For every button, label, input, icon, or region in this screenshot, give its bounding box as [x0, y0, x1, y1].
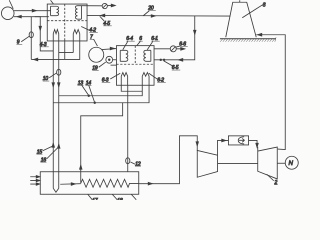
leader 10 — [49, 73, 56, 78]
turbine LP trapezoid — [258, 147, 278, 179]
leader 3 — [242, 4, 264, 18]
reheater box — [228, 136, 248, 145]
arrow into unit 6 — [110, 47, 114, 50]
wire fan bottom return — [14, 16, 49, 18]
leader 7 — [94, 39, 98, 46]
leader 6-6 — [175, 46, 180, 47]
drop leg 127.5 to valve 12 — [127, 85, 129, 172]
boiler U tube — [53, 188, 59, 192]
wire unit6 outlet to pump 6-6 — [154, 48, 170, 50]
leader 19 — [99, 62, 106, 67]
arrow right steam line — [148, 182, 152, 185]
svg-text:9: 9 — [17, 39, 20, 45]
node dot 13 — [88, 95, 90, 97]
leader 13 — [82, 85, 89, 95]
arrow left on main line — [101, 14, 105, 17]
wire fan top supply — [14, 10, 51, 12]
reheater symbol — [238, 137, 244, 144]
leader 12 — [130, 162, 135, 164]
coil 4-3 bottom left M — [53, 30, 59, 41]
riser from main line to unit 6 — [154, 16, 195, 60]
boiler inlet arrows — [30, 176, 40, 186]
tank circle 7 — [89, 47, 104, 62]
fan circle 1 — [1, 7, 14, 20]
dashed divider horizontal unit 6 — [116, 63, 154, 65]
coil 6-2 bottom right M — [142, 73, 149, 86]
stub unit6 lower port — [111, 64, 117, 66]
boiler internal wire — [60, 183, 81, 186]
pump 19 — [106, 56, 113, 63]
wire valve9 branch — [30, 17, 32, 60]
arrow left into tower basin — [258, 33, 262, 36]
dashed divider vertical unit 4 — [64, 4, 66, 41]
node dots 6-5 — [160, 59, 162, 61]
leader 20 — [143, 11, 149, 16]
arrow right boiler internal — [71, 183, 75, 186]
arrow up pipe B label 16 — [58, 144, 60, 148]
coil 4-2 bottom right M — [73, 30, 80, 41]
arrow up boiler feed — [80, 165, 82, 169]
coil 6-1 right top — [144, 50, 151, 61]
coil 6-3 bottom left M — [121, 73, 127, 86]
turbine HP trapezoid — [197, 150, 217, 177]
arrow up pipe A label 15 — [52, 143, 54, 147]
manifold line y59 — [31, 41, 80, 60]
downcomer pipe A x53 — [52, 41, 54, 188]
leader 14 — [89, 85, 95, 102]
svg-text:3: 3 — [263, 2, 266, 8]
heat exchanger unit 6 box — [116, 46, 154, 86]
coil 4-4 left top — [51, 6, 59, 15]
node dot 14 — [94, 102, 96, 104]
coil 6-4 left top — [120, 50, 128, 61]
arrow down on 4-3 branch — [39, 26, 41, 30]
arrow right into reheater — [222, 139, 226, 142]
reheater outlet wire — [249, 140, 257, 146]
arrow right on fan top wire — [32, 9, 36, 12]
leader 2 — [267, 174, 274, 181]
ground hatching — [220, 37, 276, 41]
leader tick tower top — [239, 0, 241, 2]
leader 6-3 — [110, 73, 120, 79]
generator shaft — [277, 162, 285, 164]
link legs y91 — [121, 85, 142, 91]
shaft — [218, 162, 258, 164]
arrow left on unit6 inlet — [179, 59, 183, 62]
leader 4-5 — [100, 16, 105, 21]
drop from line B to boiler — [81, 103, 123, 184]
wire coil to pump 5 — [81, 5, 102, 7]
main water line to tower — [87, 14, 230, 17]
leader 6 — [137, 41, 141, 45]
arrow left on fan bottom wire — [17, 15, 21, 18]
manifold bracket wire — [59, 41, 74, 53]
coil 4-1 right top — [75, 6, 81, 20]
arrow after pump 6-6 — [176, 48, 185, 51]
arrow right on main line — [151, 15, 155, 17]
pump 6-6 — [170, 46, 176, 52]
leader 6-4 — [123, 41, 128, 49]
wire 4-3 spray branch — [35, 17, 53, 51]
arrow down into LP — [256, 143, 258, 147]
svg-text:17: 17 — [92, 198, 98, 200]
leader 6-1 — [147, 41, 153, 49]
leader 9 — [21, 36, 29, 42]
heating element zigzag 17 — [81, 179, 139, 187]
line B y102.5 — [53, 85, 149, 103]
steam line boiler to turbine — [139, 136, 198, 184]
boiler box — [40, 172, 139, 195]
generator G — [285, 156, 298, 169]
leader 4-2 — [81, 27, 89, 31]
arrow vent after pump — [107, 4, 115, 7]
leader 6-2 — [149, 73, 158, 79]
valve 12 — [126, 158, 130, 164]
leader label 1 — [9, 0, 13, 9]
ground line — [220, 38, 276, 40]
arrow down pipe B — [58, 83, 60, 87]
cooling tower 3 — [226, 2, 257, 37]
arrow down pipe A — [52, 83, 54, 87]
divider stub — [64, 41, 66, 60]
leader label 4 top — [51, 0, 54, 4]
valve 10 — [57, 69, 61, 75]
svg-text:18: 18 — [117, 198, 123, 200]
wire tank to unit6 top — [102, 49, 117, 50]
valve 9 — [29, 32, 33, 38]
boiler bottom leaders — [88, 194, 137, 200]
leader 15 — [43, 146, 53, 151]
arrow down on riser — [194, 30, 196, 34]
svg-text:N: N — [288, 160, 293, 167]
heat exchanger unit 4 box — [47, 4, 87, 41]
leader 6-5 — [164, 61, 173, 66]
downcomer pipe B x58.5 — [58, 41, 60, 188]
dashed divider vertical unit 6 — [134, 46, 136, 65]
dashed divider horizontal unit 4 — [47, 20, 87, 22]
pump 5 circle — [102, 3, 107, 8]
arrow down turbine inlet — [196, 142, 198, 146]
line A y95.5 — [59, 85, 143, 96]
reheat riser — [218, 140, 229, 155]
leader 16 — [47, 148, 58, 159]
tower basin outlet wire — [256, 35, 285, 150]
arrow left on manifold — [34, 58, 38, 61]
